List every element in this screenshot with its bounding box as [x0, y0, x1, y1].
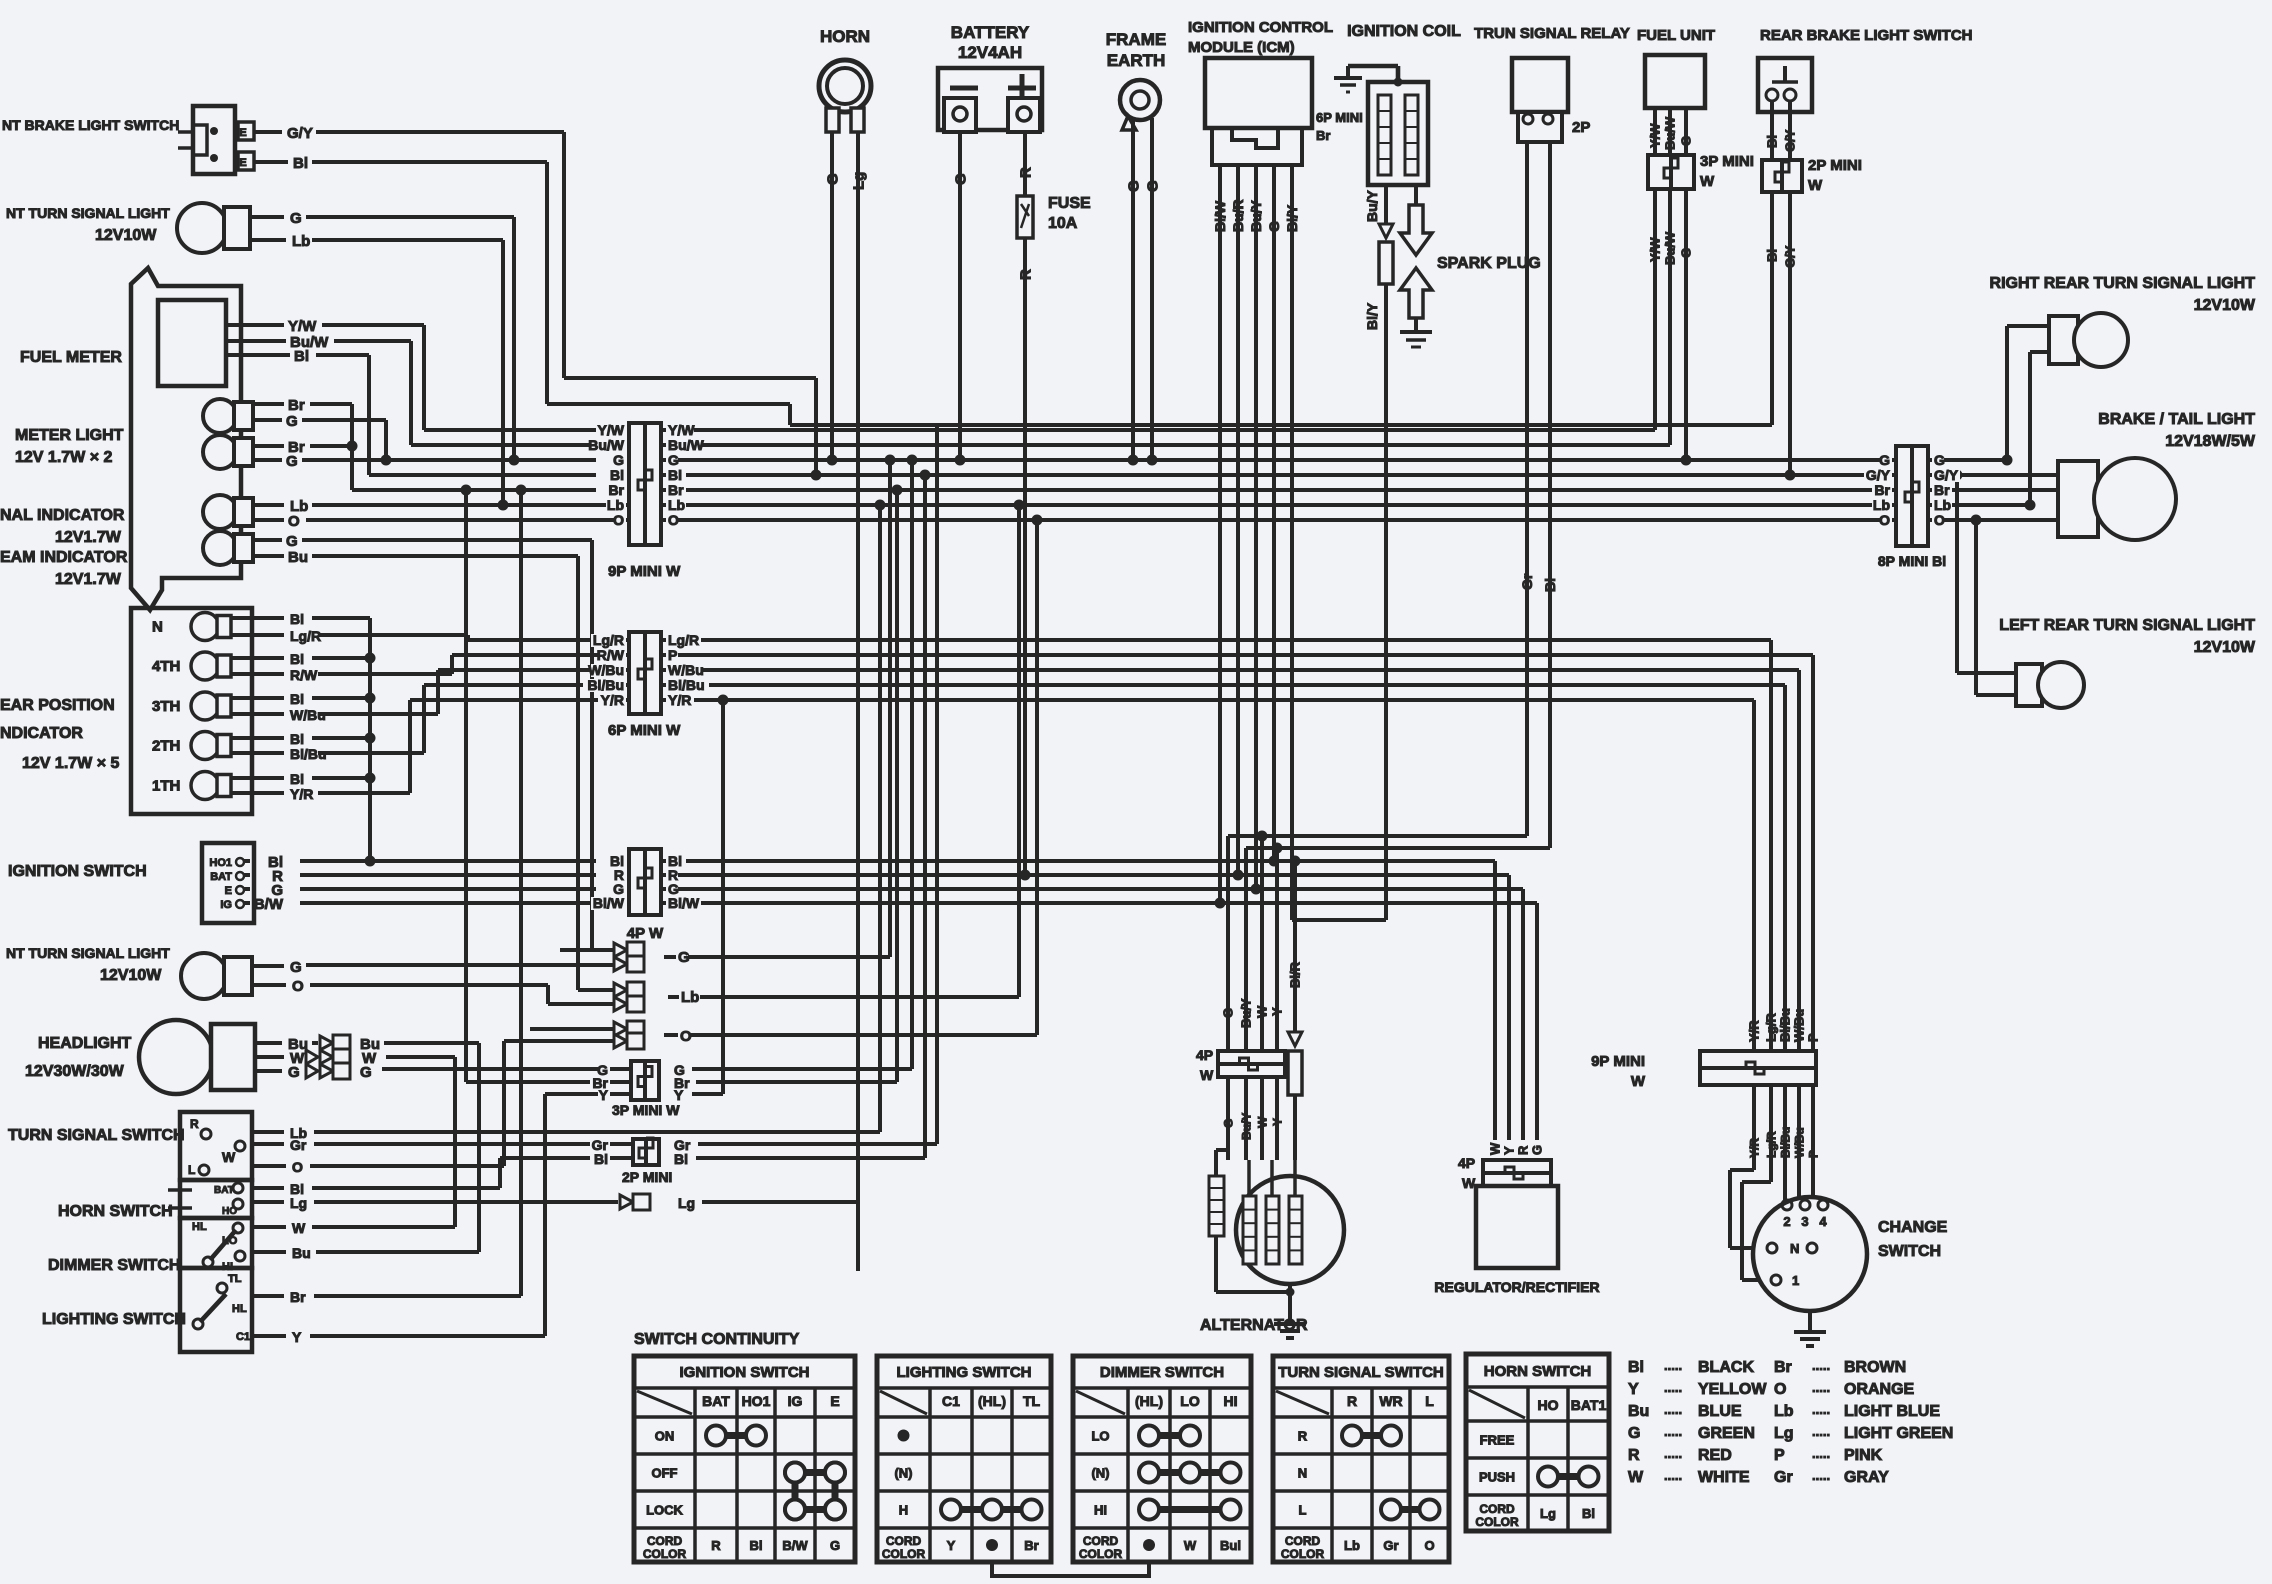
svg-text:3P MINI: 3P MINI	[1700, 153, 1754, 170]
svg-text:HI: HI	[222, 1261, 233, 1273]
svg-text:N: N	[152, 619, 163, 636]
svg-text:12V10W: 12V10W	[95, 227, 157, 244]
svg-text:Lb: Lb	[681, 989, 699, 1006]
svg-text:G: G	[830, 1538, 840, 1553]
svg-text:1: 1	[1792, 1273, 1799, 1288]
svg-text:Y: Y	[1502, 1146, 1517, 1155]
svg-text:LO: LO	[1091, 1429, 1109, 1444]
svg-text:E: E	[239, 157, 246, 169]
svg-text:Bu/W: Bu/W	[1663, 231, 1678, 265]
svg-text:Lb: Lb	[1344, 1538, 1360, 1553]
svg-text:PUSH: PUSH	[1479, 1470, 1515, 1485]
svg-text:Lb: Lb	[1774, 1403, 1794, 1420]
svg-text:Bl/Bu: Bl/Bu	[290, 746, 327, 762]
svg-text:COLOR: COLOR	[1475, 1515, 1519, 1529]
svg-text:Bl: Bl	[290, 691, 304, 707]
svg-text:ORANGE: ORANGE	[1844, 1381, 1915, 1398]
svg-text:HEADLIGHT: HEADLIGHT	[38, 1035, 132, 1052]
svg-text:Gr: Gr	[1383, 1538, 1398, 1553]
svg-text:Br: Br	[668, 482, 684, 498]
svg-text:Bu/Y: Bu/Y	[1239, 1113, 1253, 1140]
svg-text:G/Y: G/Y	[287, 125, 313, 142]
svg-text:R: R	[1516, 1145, 1531, 1155]
svg-text:Y: Y	[674, 1087, 684, 1103]
svg-text:FREE: FREE	[1480, 1433, 1515, 1448]
svg-text:G: G	[360, 1064, 372, 1081]
svg-text:LIGHTING SWITCH: LIGHTING SWITCH	[897, 1364, 1032, 1381]
svg-text:12V 1.7W × 2: 12V 1.7W × 2	[15, 449, 112, 466]
svg-text:HL: HL	[232, 1303, 247, 1315]
svg-text:G/Y: G/Y	[1866, 467, 1891, 483]
svg-text:BLUE: BLUE	[1698, 1403, 1742, 1420]
svg-text:Y: Y	[1270, 1007, 1285, 1016]
svg-text:Y/W: Y/W	[668, 422, 695, 438]
svg-text:4P W: 4P W	[627, 925, 664, 942]
svg-text:R/W: R/W	[290, 667, 318, 683]
svg-text:SWITCH CONTINUITY: SWITCH CONTINUITY	[634, 1331, 800, 1348]
svg-text:TURN SIGNAL SWITCH: TURN SIGNAL SWITCH	[8, 1127, 185, 1144]
svg-text:FUEL METER: FUEL METER	[20, 349, 122, 366]
svg-text:Lb: Lb	[607, 497, 624, 513]
svg-text:EAR POSITION: EAR POSITION	[0, 697, 115, 714]
svg-text:Lg/R: Lg/R	[593, 632, 624, 648]
svg-text:Bu: Bu	[1628, 1403, 1649, 1420]
svg-text:HORN: HORN	[820, 27, 870, 46]
svg-text:R: R	[711, 1538, 721, 1553]
svg-text:HO1: HO1	[742, 1393, 771, 1409]
svg-text:Bul: Bul	[1220, 1538, 1241, 1553]
svg-text:12V10W: 12V10W	[100, 967, 162, 984]
svg-text:4P: 4P	[1196, 1047, 1213, 1063]
svg-text:Bu/Y: Bu/Y	[1248, 199, 1264, 232]
svg-text:LEFT REAR TURN SIGNAL LIGHT: LEFT REAR TURN SIGNAL LIGHT	[1999, 617, 2255, 634]
svg-text:REAR BRAKE LIGHT SWITCH: REAR BRAKE LIGHT SWITCH	[1760, 27, 1973, 44]
svg-text:2P MINI: 2P MINI	[622, 1169, 672, 1185]
svg-text:Y: Y	[1628, 1381, 1639, 1398]
svg-text:Bu/W: Bu/W	[1663, 116, 1678, 150]
svg-text:Bl: Bl	[290, 611, 304, 627]
svg-text:3P MINI W: 3P MINI W	[612, 1102, 680, 1118]
svg-text:SPARK PLUG: SPARK PLUG	[1437, 255, 1541, 272]
svg-text:NT TURN SIGNAL LIGHT: NT TURN SIGNAL LIGHT	[6, 205, 170, 221]
svg-text:Lb: Lb	[668, 497, 685, 513]
svg-text:O: O	[1934, 512, 1945, 528]
svg-text:G: G	[1530, 1145, 1545, 1155]
svg-text:C1: C1	[942, 1393, 960, 1409]
svg-text:W: W	[1488, 1142, 1503, 1155]
svg-text:Y/W: Y/W	[1648, 237, 1663, 262]
svg-text:HO: HO	[1538, 1397, 1559, 1413]
svg-text:Bl: Bl	[1765, 135, 1780, 148]
svg-text:LO: LO	[222, 1235, 238, 1247]
svg-text:Bl: Bl	[668, 467, 682, 483]
svg-text:W/Bu: W/Bu	[668, 662, 704, 678]
svg-text:Lg/R: Lg/R	[1764, 1131, 1778, 1158]
svg-text:Y: Y	[599, 1087, 609, 1103]
svg-text:Lg: Lg	[850, 172, 867, 190]
svg-text:.....: .....	[1664, 1468, 1682, 1483]
svg-text:12V4AH: 12V4AH	[958, 43, 1022, 62]
svg-text:IGNITION SWITCH: IGNITION SWITCH	[8, 863, 147, 880]
svg-text:Gr: Gr	[1774, 1469, 1793, 1486]
svg-text:MODULE (ICM): MODULE (ICM)	[1188, 39, 1295, 56]
svg-text:GRAY: GRAY	[1844, 1469, 1889, 1486]
svg-text:.....: .....	[1812, 1380, 1830, 1395]
svg-text:R: R	[1017, 269, 1034, 280]
svg-text:2P MINI: 2P MINI	[1808, 157, 1862, 174]
svg-text:12V10W: 12V10W	[2194, 639, 2256, 656]
svg-text:IGNITION COIL: IGNITION COIL	[1347, 23, 1461, 40]
svg-text:Y/R: Y/R	[290, 786, 313, 802]
svg-text:Y: Y	[292, 1329, 302, 1345]
svg-text:.....: .....	[1664, 1446, 1682, 1461]
svg-text:P: P	[1774, 1447, 1785, 1464]
svg-text:W: W	[1700, 173, 1715, 190]
svg-text:Bl/W: Bl/W	[668, 895, 700, 911]
svg-text:NT BRAKE LIGHT SWITCH: NT BRAKE LIGHT SWITCH	[2, 117, 179, 133]
svg-text:LIGHT GREEN: LIGHT GREEN	[1844, 1425, 1953, 1442]
svg-text:4P: 4P	[1458, 1155, 1475, 1171]
svg-text:Bu/Y: Bu/Y	[1239, 998, 1254, 1028]
svg-text:HI: HI	[1224, 1393, 1238, 1409]
svg-text:REGULATOR/RECTIFIER: REGULATOR/RECTIFIER	[1434, 1279, 1599, 1295]
svg-text:EAM INDICATOR: EAM INDICATOR	[0, 549, 128, 566]
svg-text:G: G	[1266, 221, 1282, 232]
svg-text:W: W	[1631, 1073, 1646, 1090]
svg-text:Lg: Lg	[678, 1195, 695, 1211]
svg-text:G: G	[288, 1064, 300, 1081]
svg-text:HI: HI	[1094, 1503, 1107, 1518]
svg-text:Lb: Lb	[1934, 497, 1951, 513]
svg-text:W: W	[1255, 1116, 1269, 1128]
svg-text:NAL INDICATOR: NAL INDICATOR	[0, 507, 125, 524]
svg-text:G: G	[824, 173, 841, 185]
svg-text:Bl: Bl	[1765, 249, 1780, 262]
svg-text:Bl: Bl	[290, 731, 304, 747]
svg-text:Y/R: Y/R	[1747, 1138, 1761, 1158]
svg-text:12V10W: 12V10W	[2194, 297, 2256, 314]
svg-text:12V1.7W: 12V1.7W	[55, 571, 122, 588]
svg-text:EARTH: EARTH	[1107, 51, 1166, 70]
svg-text:Bl: Bl	[290, 771, 304, 787]
svg-text:N: N	[1298, 1466, 1307, 1481]
svg-text:BAT: BAT	[214, 1185, 234, 1196]
svg-text:Bl: Bl	[750, 1538, 763, 1553]
svg-text:6P MINI: 6P MINI	[1316, 110, 1363, 125]
svg-text:LIGHTING SWITCH: LIGHTING SWITCH	[42, 1311, 186, 1328]
svg-text:Br: Br	[1316, 128, 1330, 143]
svg-text:P: P	[668, 647, 677, 663]
svg-text:G: G	[1934, 452, 1945, 468]
svg-text:Gr: Gr	[1519, 573, 1535, 590]
svg-text:COLOR: COLOR	[643, 1547, 687, 1561]
svg-text:R: R	[1298, 1429, 1308, 1444]
svg-text:Bu: Bu	[288, 549, 308, 566]
svg-text:W: W	[222, 1149, 236, 1165]
svg-text:Bl/Bu: Bl/Bu	[587, 677, 624, 693]
svg-text:LIGHT BLUE: LIGHT BLUE	[1844, 1403, 1940, 1420]
svg-text:HL: HL	[192, 1221, 207, 1233]
svg-text:O: O	[680, 1028, 692, 1045]
svg-text:Bl/Bu: Bl/Bu	[668, 677, 705, 693]
svg-text:G: G	[290, 959, 302, 976]
svg-text:FUEL UNIT: FUEL UNIT	[1637, 27, 1715, 44]
svg-text:G: G	[613, 452, 624, 468]
svg-text:Lb: Lb	[1873, 497, 1890, 513]
svg-text:Y/R: Y/R	[1747, 1020, 1762, 1042]
svg-text:P: P	[1806, 1150, 1820, 1158]
svg-text:Lg: Lg	[1540, 1506, 1556, 1521]
svg-text:G: G	[286, 453, 298, 470]
svg-text:Lg/R: Lg/R	[668, 632, 699, 648]
svg-text:G: G	[1125, 180, 1142, 192]
svg-text:Br: Br	[1934, 482, 1950, 498]
svg-text:Bl/Bu: Bl/Bu	[1778, 1127, 1792, 1158]
svg-text:(HL): (HL)	[978, 1393, 1006, 1409]
svg-text:Gr: Gr	[290, 1137, 307, 1153]
svg-text:YELLOW: YELLOW	[1698, 1381, 1767, 1398]
svg-text:G: G	[290, 210, 302, 227]
svg-text:O: O	[292, 1159, 303, 1175]
svg-text:Y/W: Y/W	[598, 422, 625, 438]
svg-text:2TH: 2TH	[152, 738, 180, 755]
svg-text:O: O	[1774, 1381, 1786, 1398]
svg-text:NT TURN SIGNAL LIGHT: NT TURN SIGNAL LIGHT	[6, 945, 170, 961]
svg-text:HORN SWITCH: HORN SWITCH	[58, 1203, 173, 1220]
svg-text:FUSE: FUSE	[1048, 195, 1091, 212]
svg-text:(HL): (HL)	[1135, 1393, 1163, 1409]
svg-text:ON: ON	[655, 1429, 675, 1444]
svg-text:G: G	[286, 413, 298, 430]
svg-text:8P MINI Bl: 8P MINI Bl	[1878, 553, 1946, 569]
svg-text:L: L	[188, 1163, 195, 1177]
svg-text:HORN SWITCH: HORN SWITCH	[1484, 1363, 1592, 1380]
svg-text:W: W	[1200, 1067, 1214, 1083]
svg-text:GREEN: GREEN	[1698, 1425, 1755, 1442]
svg-text:O: O	[1424, 1538, 1434, 1553]
svg-text:10A: 10A	[1048, 215, 1078, 232]
svg-text:HO1: HO1	[209, 857, 232, 869]
svg-text:Bl: Bl	[293, 155, 308, 172]
svg-text:L: L	[1299, 1503, 1307, 1518]
svg-text:.....: .....	[1812, 1402, 1830, 1417]
svg-text:B/W: B/W	[254, 896, 284, 913]
svg-text:G: G	[286, 533, 298, 550]
svg-text:W: W	[1808, 177, 1823, 194]
svg-text:TRUN SIGNAL RELAY: TRUN SIGNAL RELAY	[1474, 25, 1630, 42]
svg-text:BAT: BAT	[210, 871, 232, 883]
svg-text:Lg/R: Lg/R	[290, 628, 321, 644]
svg-text:Bl/Bu: Bl/Bu	[1778, 1008, 1793, 1042]
svg-text:G/Y: G/Y	[1783, 129, 1798, 152]
svg-text:2P: 2P	[1572, 119, 1590, 136]
svg-text:Bl: Bl	[674, 1151, 688, 1167]
svg-text:BAT1: BAT1	[1571, 1397, 1607, 1413]
svg-text:LOCK: LOCK	[646, 1503, 683, 1518]
svg-text:E: E	[830, 1393, 839, 1409]
svg-text:CORD: CORD	[1479, 1502, 1515, 1516]
svg-text:Bu/Y: Bu/Y	[1364, 189, 1380, 222]
svg-text:3TH: 3TH	[152, 698, 180, 715]
svg-text:N: N	[1790, 1241, 1799, 1256]
svg-text:E: E	[239, 127, 246, 139]
svg-text:Y/R: Y/R	[601, 692, 624, 708]
svg-text:BAT: BAT	[702, 1393, 730, 1409]
svg-text:IG: IG	[788, 1393, 803, 1409]
svg-text:O: O	[613, 512, 624, 528]
svg-text:IGNITION CONTROL: IGNITION CONTROL	[1188, 19, 1333, 36]
svg-text:Bl: Bl	[1582, 1506, 1595, 1521]
svg-text:O: O	[292, 978, 304, 995]
svg-text:.....: .....	[1812, 1468, 1830, 1483]
svg-text:L: L	[1425, 1393, 1434, 1409]
svg-text:R: R	[1347, 1393, 1357, 1409]
svg-text:R: R	[1017, 167, 1034, 178]
svg-text:Br: Br	[290, 1289, 306, 1305]
svg-text:.....: .....	[1664, 1358, 1682, 1373]
svg-text:Bl: Bl	[1542, 578, 1558, 592]
svg-text:H: H	[899, 1503, 908, 1518]
svg-text:Y/R: Y/R	[668, 692, 691, 708]
svg-text:.....: .....	[1812, 1424, 1830, 1439]
svg-text:W: W	[1184, 1538, 1197, 1553]
svg-text:RED: RED	[1698, 1447, 1732, 1464]
svg-text:Bu/W: Bu/W	[588, 437, 625, 453]
svg-text:R/W: R/W	[597, 647, 625, 663]
svg-text:RIGHT REAR TURN SIGNAL LIGHT: RIGHT REAR TURN SIGNAL LIGHT	[1990, 275, 2256, 292]
svg-text:COLOR: COLOR	[882, 1547, 926, 1561]
svg-text:4: 4	[1819, 1214, 1827, 1229]
svg-text:ALTERNATOR: ALTERNATOR	[1200, 1317, 1308, 1334]
svg-text:P: P	[1806, 1033, 1821, 1042]
svg-text:IG: IG	[220, 899, 232, 911]
svg-text:G/Y: G/Y	[1934, 467, 1959, 483]
svg-text:O: O	[288, 513, 300, 530]
svg-text:G: G	[1221, 1119, 1235, 1128]
svg-text:FRAME: FRAME	[1106, 30, 1166, 49]
svg-text:CORD: CORD	[1083, 1534, 1119, 1548]
svg-text:WHITE: WHITE	[1698, 1469, 1750, 1486]
svg-text:.....: .....	[1812, 1446, 1830, 1461]
svg-text:Y: Y	[947, 1538, 956, 1553]
svg-text:W/Bu: W/Bu	[290, 707, 326, 723]
svg-text:IGNITION SWITCH: IGNITION SWITCH	[680, 1364, 810, 1381]
svg-text:G: G	[678, 949, 690, 966]
svg-text:Bl: Bl	[290, 651, 304, 667]
svg-text:O: O	[1879, 512, 1890, 528]
svg-text:Br: Br	[1024, 1538, 1038, 1553]
svg-text:W/Bu: W/Bu	[1792, 1009, 1807, 1042]
svg-text:W/Bu: W/Bu	[588, 662, 624, 678]
svg-text:G: G	[1144, 180, 1161, 192]
svg-text:.....: .....	[1664, 1380, 1682, 1395]
svg-text:Y/W: Y/W	[1648, 123, 1663, 148]
svg-text:W: W	[1255, 1005, 1270, 1018]
svg-text:OFF: OFF	[652, 1466, 678, 1481]
svg-text:SWITCH: SWITCH	[1878, 1243, 1941, 1260]
svg-text:.....: .....	[1664, 1424, 1682, 1439]
svg-text:W/Bu: W/Bu	[1792, 1127, 1806, 1158]
svg-text:C1: C1	[236, 1331, 250, 1343]
svg-text:Bl: Bl	[610, 467, 624, 483]
svg-text:CORD: CORD	[886, 1534, 922, 1548]
svg-text:Bl: Bl	[294, 348, 309, 365]
svg-text:12V18W/5W: 12V18W/5W	[2165, 433, 2256, 450]
svg-text:2: 2	[1783, 1214, 1790, 1229]
svg-text:BATTERY: BATTERY	[951, 23, 1030, 42]
svg-text:12V1.7W: 12V1.7W	[55, 529, 122, 546]
svg-text:G: G	[1679, 136, 1694, 146]
svg-text:WR: WR	[1379, 1393, 1402, 1409]
svg-text:W: W	[292, 1220, 306, 1236]
svg-text:CORD: CORD	[647, 1534, 683, 1548]
svg-text:G: G	[1879, 452, 1890, 468]
svg-text:E: E	[225, 885, 232, 897]
svg-text:NDICATOR: NDICATOR	[0, 725, 83, 742]
svg-text:Bu/R: Bu/R	[1230, 199, 1246, 232]
svg-text:3: 3	[1801, 1214, 1808, 1229]
svg-text:1TH: 1TH	[152, 778, 180, 795]
svg-text:12V 1.7W × 5: 12V 1.7W × 5	[22, 755, 119, 772]
svg-text:Bl/Y: Bl/Y	[1284, 204, 1300, 232]
svg-text:(N): (N)	[1091, 1466, 1109, 1481]
svg-text:G/Y: G/Y	[1783, 245, 1798, 268]
svg-text:R: R	[190, 1117, 199, 1131]
svg-text:DIMMER SWITCH: DIMMER SWITCH	[1100, 1364, 1224, 1381]
svg-text:Br: Br	[608, 482, 624, 498]
svg-text:Bl/W: Bl/W	[593, 895, 625, 911]
svg-text:Lb: Lb	[292, 233, 310, 250]
svg-text:9P MINI W: 9P MINI W	[608, 563, 681, 580]
svg-text:Y: Y	[1270, 1118, 1284, 1126]
svg-text:COLOR: COLOR	[1079, 1547, 1123, 1561]
svg-text:TL: TL	[228, 1273, 242, 1285]
svg-text:Bl: Bl	[1628, 1359, 1644, 1376]
svg-text:R: R	[1628, 1447, 1640, 1464]
svg-text:4TH: 4TH	[152, 658, 180, 675]
svg-text:BLACK: BLACK	[1698, 1359, 1754, 1376]
svg-text:Bu: Bu	[292, 1245, 311, 1261]
svg-text:Lg: Lg	[1774, 1425, 1794, 1442]
svg-text:Bl/Y: Bl/Y	[1364, 302, 1380, 330]
svg-text:Y/W: Y/W	[288, 318, 317, 335]
svg-text:LO: LO	[1180, 1393, 1200, 1409]
svg-text:.....: .....	[1664, 1402, 1682, 1417]
svg-text:B/W: B/W	[782, 1538, 808, 1553]
svg-text:METER LIGHT: METER LIGHT	[15, 427, 124, 444]
svg-text:Bl: Bl	[594, 1151, 608, 1167]
svg-text:(N): (N)	[894, 1466, 912, 1481]
svg-text:.....: .....	[1812, 1358, 1830, 1373]
svg-text:Br: Br	[1774, 1359, 1792, 1376]
svg-text:9P MINI: 9P MINI	[1591, 1053, 1645, 1070]
svg-text:G: G	[1221, 1008, 1236, 1018]
svg-text:CHANGE: CHANGE	[1878, 1219, 1948, 1236]
svg-text:Br: Br	[1874, 482, 1890, 498]
svg-text:BROWN: BROWN	[1844, 1359, 1906, 1376]
svg-text:HO: HO	[222, 1206, 237, 1217]
svg-text:G: G	[668, 452, 679, 468]
svg-text:DIMMER SWITCH: DIMMER SWITCH	[48, 1257, 180, 1274]
svg-text:6P MINI W: 6P MINI W	[608, 722, 681, 739]
svg-text:TURN SIGNAL SWITCH: TURN SIGNAL SWITCH	[1278, 1364, 1444, 1381]
svg-text:PINK: PINK	[1844, 1447, 1883, 1464]
svg-text:COLOR: COLOR	[1281, 1547, 1325, 1561]
svg-text:W: W	[1462, 1175, 1476, 1191]
svg-text:W: W	[1628, 1469, 1644, 1486]
svg-text:BRAKE / TAIL LIGHT: BRAKE / TAIL LIGHT	[2098, 411, 2255, 428]
svg-text:Bu/W: Bu/W	[668, 437, 705, 453]
